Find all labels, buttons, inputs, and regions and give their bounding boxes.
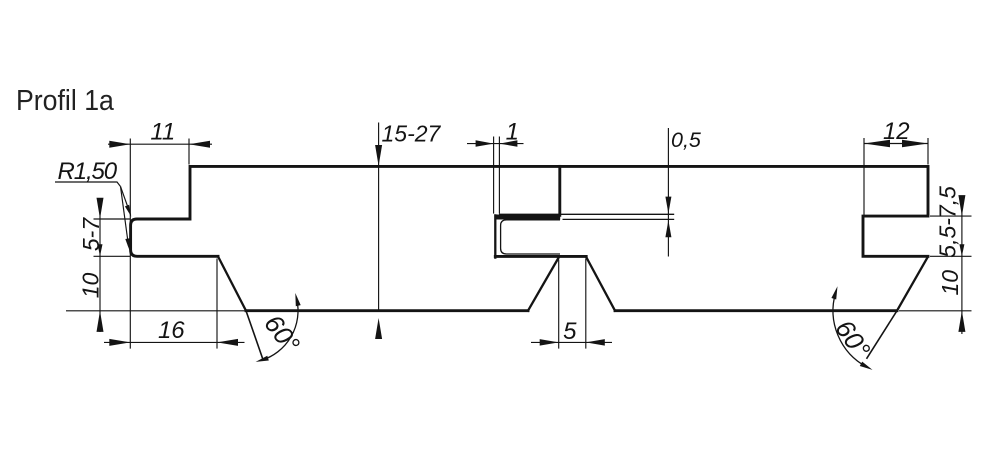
svg-text:5: 5 [563, 318, 577, 345]
svg-text:5,5-7,5: 5,5-7,5 [935, 186, 961, 258]
svg-text:12: 12 [883, 118, 910, 145]
svg-text:R1,50: R1,50 [58, 158, 118, 185]
svg-text:15-27: 15-27 [382, 121, 442, 147]
svg-text:0,5: 0,5 [671, 128, 702, 152]
svg-text:10: 10 [937, 270, 963, 296]
svg-text:1: 1 [506, 119, 519, 146]
svg-text:60°: 60° [258, 309, 306, 358]
svg-text:11: 11 [150, 119, 175, 146]
svg-text:16: 16 [158, 317, 185, 344]
svg-text:5-7: 5-7 [78, 217, 104, 251]
svg-text:60°: 60° [829, 314, 876, 363]
svg-text:10: 10 [78, 273, 104, 299]
